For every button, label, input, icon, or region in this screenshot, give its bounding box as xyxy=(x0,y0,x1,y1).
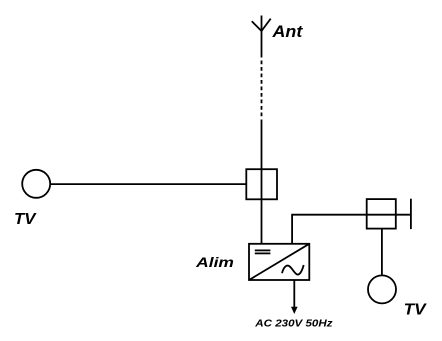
arrowhead AC supply xyxy=(291,307,298,314)
wire tap to right TV xyxy=(381,229,383,275)
svg-text:Alim: Alim xyxy=(195,255,234,271)
wire feeder to splitter xyxy=(261,120,263,170)
svg-text:TV: TV xyxy=(14,211,37,228)
wire power supply to tap (corner) xyxy=(292,215,410,245)
power supply diagonal xyxy=(249,244,309,280)
svg-text:AC 230V 50Hz: AC 230V 50Hz xyxy=(254,319,333,330)
wire antenna feeder (dashed) xyxy=(261,61,263,118)
antenna ANT1 xyxy=(252,16,271,58)
TV outlet right (circle) xyxy=(368,275,396,303)
DC symbol (two bars) xyxy=(255,250,271,253)
wire left TV to splitter xyxy=(50,183,246,185)
wire splitter to power supply xyxy=(261,169,263,244)
wire AC supply xyxy=(293,280,295,308)
tap box xyxy=(367,199,396,229)
splitter box xyxy=(246,169,277,199)
tap terminator bar xyxy=(410,199,412,229)
svg-text:Ant: Ant xyxy=(271,22,303,41)
power supply U1 (Alim box) xyxy=(249,244,309,280)
AC symbol (sine wave) xyxy=(282,265,304,275)
svg-text:TV: TV xyxy=(404,302,428,319)
TV outlet left (circle) xyxy=(22,170,50,198)
